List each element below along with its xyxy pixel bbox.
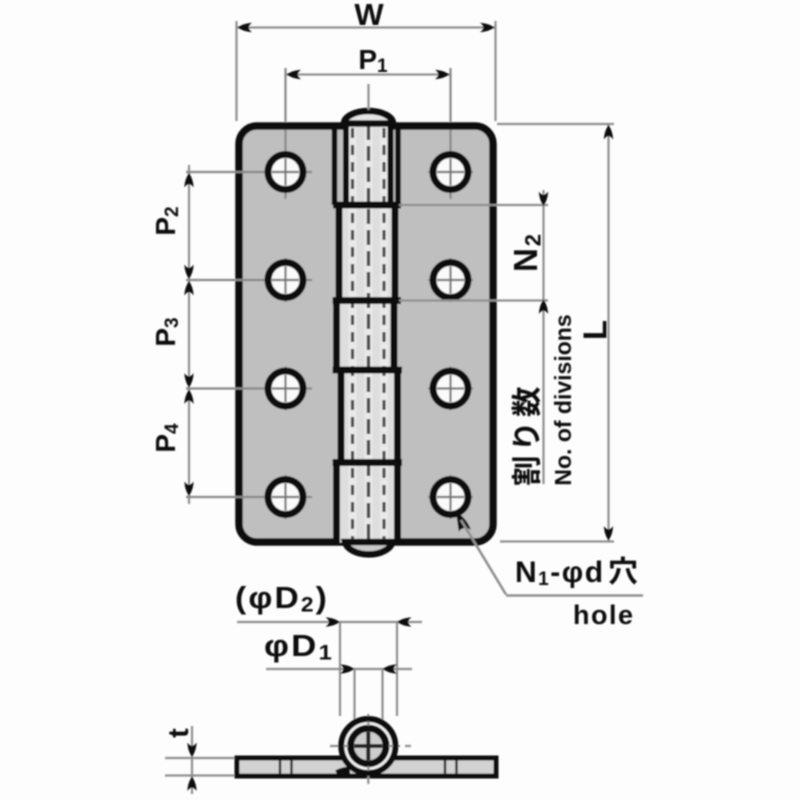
hole crosshair h row4 left (186, 496, 312, 498)
N2 extension line top (knuckle divider 1 extended) (399, 204, 548, 206)
screw hole A1 (row1 left) (268, 155, 303, 190)
knuckle segment 2 side lines (336, 205, 343, 301)
knuckle divider 2 (333, 297, 402, 304)
leaf edges beside segment 1 (332, 123, 338, 206)
pin centerline above dome (367, 84, 369, 110)
barrel inner circle (pin hole) (351, 728, 387, 764)
hole crosshair v col2 row4 (449, 475, 451, 519)
L arrow down (604, 526, 613, 541)
leader line diagonal (461, 520, 506, 595)
dimension W extension right (494, 21, 496, 121)
knuckle segment 5 side lines (333, 463, 340, 544)
D2 extension right (396, 622, 398, 716)
D2 dimension line (237, 621, 422, 623)
knuckle segment 4 side lines (338, 370, 345, 463)
dimension W line (237, 26, 496, 28)
screw hole A2 (row2 left) (268, 263, 303, 298)
P4 arrow down (184, 482, 193, 497)
L extension line top (497, 123, 614, 125)
hole crosshair v col1 row2 (284, 258, 286, 302)
screw hole B2 (row2 right) (433, 263, 468, 298)
hinge leaf body (both leaves, rounded rect) (239, 126, 493, 542)
svg-text:φD1: φD1 (264, 628, 334, 665)
P stack dimension line (188, 165, 190, 504)
barrel centerline vertical (367, 714, 369, 788)
hole crosshair h row3 left (186, 387, 312, 389)
pin top dome (344, 111, 393, 123)
t dimension line (191, 726, 193, 794)
P2 arrow up (184, 173, 193, 188)
knuckle segment 3 side lines (333, 301, 340, 371)
screw hole A4 (row4 left) (268, 480, 303, 515)
dimension W arrow left (238, 23, 253, 32)
pin hidden dashed line right (382, 128, 385, 541)
dimension P1 line (286, 73, 451, 75)
svg-text:No. of divisions: No. of divisions (550, 314, 576, 485)
t arrow down (187, 743, 196, 758)
screw hole A3 (row3 left) (268, 371, 303, 406)
svg-text:N1-φd: N1-φd (515, 556, 605, 590)
label ana kanji (hole) (609, 556, 637, 584)
knuckle segment 1 side lines (343, 123, 349, 206)
svg-text:t: t (163, 728, 195, 738)
svg-text:P4: P4 (150, 423, 183, 453)
t arrow up (187, 777, 196, 792)
knuckle divider 4 (333, 459, 403, 466)
svg-text:P3: P3 (150, 317, 183, 346)
svg-text:P2: P2 (150, 206, 183, 235)
t extension line top (165, 757, 237, 759)
crosses inside holes (272, 159, 464, 511)
dash halo bands (349, 127, 357, 541)
knuckle interior light strip per segment (348, 126, 388, 205)
svg-text:P1: P1 (358, 44, 388, 77)
hole crosshair v col2 row3 (449, 367, 451, 411)
hole crosshair h row1 right (428, 171, 473, 173)
screw hole B3 (row3 right) (433, 371, 468, 406)
t extension line bottom (165, 774, 237, 776)
hole crosshair h row3 right (428, 387, 473, 389)
hole crosshair v col1 row1 with P1 extension (284, 68, 286, 122)
N2 extension line bottom (knuckle divider 2 extended) (399, 299, 548, 301)
dimension W arrow right (480, 23, 495, 32)
D2 arrow right-pointing (326, 617, 341, 626)
hole crosshair h row4 right (428, 496, 473, 498)
screw hole B4 (row4 right, N1 leader) (433, 480, 468, 515)
hole crosshair h row2 right (428, 279, 473, 281)
svg-text:L: L (577, 320, 614, 340)
L extension line bottom (500, 540, 614, 542)
N2 arrow down to top line (539, 192, 548, 207)
pin center dashed line (367, 125, 370, 541)
screw hole B1 (row1 right) (433, 155, 468, 190)
leader arrow at hole rim (456, 513, 471, 532)
L dimension line (607, 124, 609, 542)
hole crosshair v col2 row1 with P1 extension (449, 68, 451, 122)
pin bottom dome (345, 542, 393, 554)
D1 extension left (353, 669, 355, 724)
knuckle divider 3 (333, 367, 403, 374)
L arrow up (604, 125, 613, 140)
knuckle divider 1 (333, 202, 401, 209)
svg-text:N2: N2 (507, 232, 546, 272)
label wari-suu (kanji, rotated) (512, 387, 541, 485)
hole crosshair h row1 left (186, 171, 312, 173)
hole crosshair h row2 left (186, 279, 312, 281)
D2 arrow left-pointing (397, 617, 412, 626)
N2 arrow up to bottom line (539, 300, 548, 315)
leaf curl under barrel (337, 771, 350, 775)
barrel centerline horizontal (330, 745, 411, 747)
svg-text:W: W (354, 0, 384, 32)
D1 dimension line (266, 668, 412, 670)
pin hidden dashed line left (351, 128, 354, 541)
barrel outer circle (341, 719, 395, 773)
hidden hole dashes in plate col1 (279, 761, 282, 775)
dimension W extension left (235, 21, 237, 121)
N2 dimension line (542, 190, 544, 484)
side view plate (237, 758, 496, 776)
hole crosshair v col2 row2 (449, 258, 451, 302)
centerline ticks over white ring (344, 745, 348, 747)
dimension P1 arrow left (287, 70, 302, 79)
cross inside pin hole (354, 744, 382, 748)
svg-text:hole: hole (573, 600, 635, 630)
hole crosshair v col1 row4 (284, 475, 286, 519)
D2 extension left (339, 622, 341, 716)
D1 arrow right-pointing (340, 664, 355, 673)
dimension P1 arrow right (435, 70, 450, 79)
D1 extension right (381, 669, 383, 724)
P2/P3 bowtie arrows (184, 265, 193, 280)
svg-text:(φD2): (φD2) (235, 580, 329, 617)
D1 arrow left-pointing (383, 664, 398, 673)
hidden hole dashes in plate col2 (444, 761, 447, 775)
P3/P4 bowtie arrows (184, 373, 193, 388)
leader underline (506, 594, 643, 597)
hole crosshair v col1 row3 (284, 367, 286, 411)
